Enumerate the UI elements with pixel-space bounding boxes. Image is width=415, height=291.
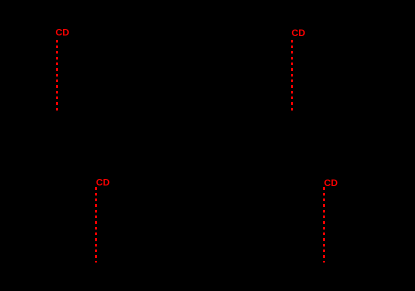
svg-text:CD: CD — [56, 28, 70, 39]
svg-text:CD: CD — [96, 178, 110, 189]
svg-text:CD: CD — [324, 178, 338, 189]
svg-text:CD: CD — [292, 28, 306, 39]
wire: dashed capacitor-CD path (top-right) — [291, 40, 293, 111]
wire: dashed capacitor-CD path (mid-right) — [323, 187, 325, 262]
wire: dashed capacitor-CD path (mid-left) — [95, 187, 97, 262]
wire: dashed capacitor-CD path (top-left) — [56, 40, 58, 111]
